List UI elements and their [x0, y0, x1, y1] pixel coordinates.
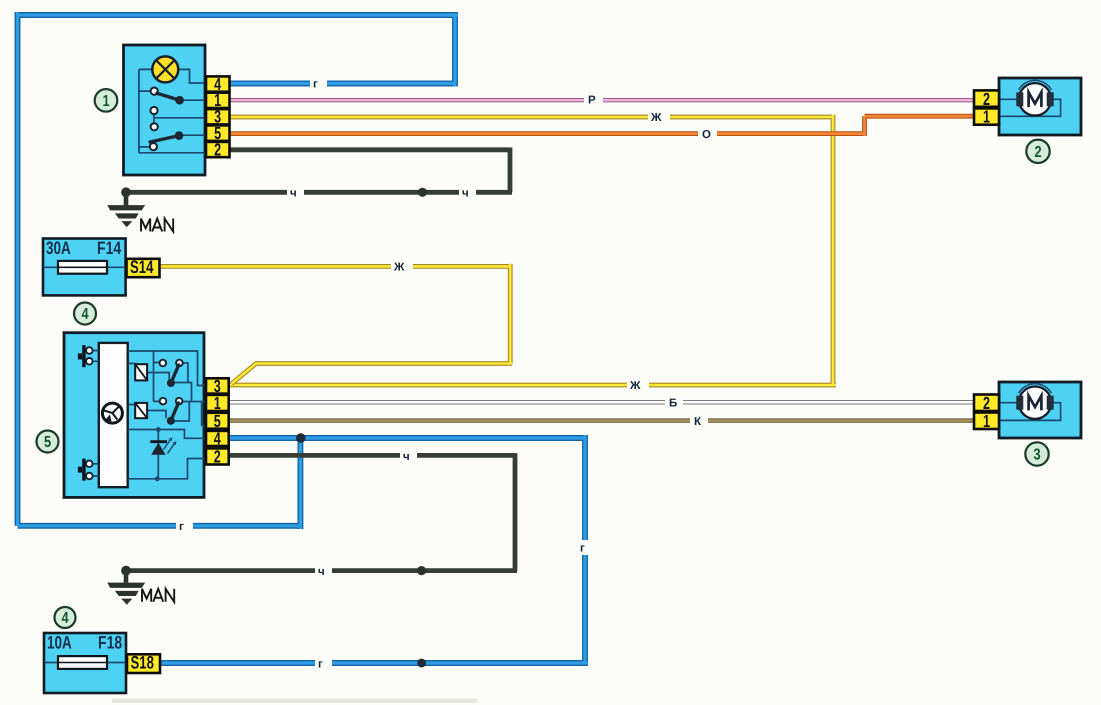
unit5 relay coil 1 [135, 364, 147, 380]
unit1 lever A with pivot dot [157, 93, 184, 104]
unit1 internal bus wiring [139, 69, 206, 152]
fuse block F14 body [43, 239, 126, 296]
wire label ч (ground run 1 left) [287, 185, 304, 199]
unit5 pin 3 [206, 376, 229, 396]
callout circle 1 [95, 89, 118, 112]
svg-text:Ж: Ж [393, 262, 405, 274]
svg-text:К: К [694, 416, 702, 428]
motor unit 2 body [999, 78, 1081, 135]
unit1 contact D [150, 143, 157, 150]
wire label Ж (S14 run) [391, 259, 413, 274]
svg-text:10A: 10A [47, 633, 72, 653]
label MAN2 [142, 589, 174, 602]
svg-text:1: 1 [983, 107, 990, 127]
svg-text:Ж: Ж [650, 112, 662, 124]
wire label К [690, 414, 708, 428]
fuse F18 element [44, 656, 127, 669]
junction dot blue on bottom S18 run [417, 659, 426, 668]
ground MAN1 [107, 187, 145, 227]
svg-text:ч: ч [403, 451, 410, 463]
lamp (interior light) in unit1 [152, 56, 178, 82]
svg-text:S18: S18 [131, 653, 154, 673]
svg-text:2: 2 [1034, 144, 1041, 161]
wire label ч (ground run 2) [315, 564, 332, 578]
unit3 internal wiring loop [999, 403, 1061, 421]
unit5 lower switch lever with pivot dot [167, 403, 179, 425]
unit1 pin 1 [206, 90, 230, 110]
svg-text:4: 4 [214, 429, 221, 449]
unit3 pin 1 [974, 411, 999, 431]
svg-text:4: 4 [81, 306, 88, 323]
unit5 white panel [99, 343, 128, 487]
wire label Р [584, 92, 603, 107]
svg-text:2: 2 [214, 447, 221, 467]
switch unit 1 body [124, 45, 206, 175]
wire label г (S18 run) [315, 656, 332, 671]
ground MAN2 [107, 566, 145, 605]
svg-text:Б: Б [669, 397, 677, 409]
unit5 handle symbol [102, 403, 122, 423]
motor unit 3 body [999, 382, 1081, 438]
callout circle 4b [55, 607, 76, 628]
svg-text:ч: ч [462, 187, 469, 199]
wire О orange: unit1 pin5 right, jog up, to unit2 pin1 [229, 116, 975, 136]
unit2 pin 2 [974, 89, 999, 109]
unit5 button top [78, 345, 99, 367]
unit1 pin 5 [206, 123, 230, 143]
wire label Б [665, 395, 683, 409]
svg-text:30A: 30A [46, 238, 71, 258]
wire label г (loop bottom run) [176, 519, 193, 534]
wire label О [698, 126, 717, 141]
unit1 contact C [151, 123, 158, 130]
unit5 relay coil 2 [135, 403, 147, 418]
svg-text:4: 4 [61, 610, 68, 627]
unit5 button bottom [78, 459, 99, 481]
svg-text:О: О [702, 129, 711, 141]
wire К brown: unit5 pin5 to unit3 pin1 [229, 418, 975, 422]
unit1 lever B with pivot dot [150, 131, 183, 142]
fuse block F18 body [44, 633, 126, 693]
wire label г (S18 riser) [577, 540, 593, 555]
unit1 switch contact A [151, 88, 158, 95]
callout circle 4a [74, 303, 96, 325]
wire Г blue loop: unit1 pin4 right, up, across top, down left side, to bottom run [18, 12, 459, 529]
svg-text:2: 2 [214, 139, 221, 159]
label MAN1 [141, 219, 173, 232]
svg-text:г: г [580, 543, 585, 555]
unit5 upper switch lever with pivot dot [167, 365, 179, 387]
unit1 pin 4 [206, 74, 230, 94]
unit2 internal wiring loop [999, 99, 1061, 116]
junction dot on black ground run 1 [418, 188, 427, 197]
unit5 upper switch contacts [160, 360, 183, 367]
svg-text:1: 1 [102, 93, 109, 110]
svg-text:Ж: Ж [629, 380, 641, 392]
switch/relay unit 5 body [64, 333, 204, 498]
unit5 pin 2 [206, 447, 229, 467]
wire Б white: unit5 pin1 to unit3 pin2 [229, 400, 975, 404]
connector S18 [127, 653, 160, 673]
unit1 contact B [150, 107, 157, 114]
svg-text:г: г [179, 521, 184, 533]
svg-text:F14: F14 [97, 238, 121, 258]
svg-text:2: 2 [983, 393, 990, 413]
wire Ж yellow: unit1 pin3 right then down to unit5 pin3 run [229, 115, 836, 386]
svg-text:F18: F18 [98, 633, 122, 653]
unit5 pin 5 [206, 411, 229, 431]
svg-text:3: 3 [1033, 447, 1040, 464]
svg-text:г: г [318, 659, 323, 671]
unit5 lower switch contacts [160, 398, 183, 405]
unit3 pin 2 [974, 393, 999, 413]
svg-text:Р: Р [588, 95, 596, 107]
wire label ч (ground run 1 right) [459, 185, 476, 199]
wire Ж yellow: fuse S14 right, down, left, diagonal into unit5 pin3 [159, 264, 512, 384]
callout circle 2 [1026, 140, 1049, 163]
wire Ч black: unit1 pin2 right, down, left to ground MAN1 [126, 148, 512, 193]
fuse F14 element [43, 261, 126, 274]
unit5 pin 1 [206, 393, 229, 413]
unit5 LED indicator [150, 427, 176, 481]
unit3 motor M [1016, 384, 1053, 419]
callout circle 5 [37, 431, 59, 453]
svg-text:г: г [313, 79, 318, 91]
svg-text:ч: ч [318, 566, 325, 578]
junction dot blue at unit5 pin4 branch [296, 433, 306, 443]
svg-text:S14: S14 [130, 257, 153, 277]
wire label Ж (top run) [648, 110, 670, 125]
connector S14 [127, 257, 160, 277]
unit1 pin 3 [206, 107, 230, 127]
wire label Ж (unit5 pin3 run) [627, 378, 649, 393]
unit5 pin 4 [206, 429, 229, 449]
junction dot on black ground run 2 [417, 566, 426, 575]
unit5 internal wiring [128, 351, 206, 479]
wire label ч (unit5 pin2 run) [400, 449, 417, 463]
wire Ч black: unit5 pin2 right, down, left to ground MAN2 [126, 453, 517, 570]
unit1 pin 2 [206, 139, 230, 159]
wire Г blue: unit5 pin4 right to corner, down, left to S18 [159, 435, 588, 663]
wire Р pink: unit1 pin1 to unit2 pin2 [229, 98, 975, 102]
callout circle 3 [1025, 442, 1048, 465]
wire label г (unit1 pin4 run) [310, 76, 327, 91]
unit2 pin 1 [974, 107, 999, 127]
unit2 motor M [1016, 80, 1053, 115]
svg-text:5: 5 [44, 434, 51, 451]
svg-text:ч: ч [290, 187, 297, 199]
svg-text:1: 1 [983, 411, 990, 431]
